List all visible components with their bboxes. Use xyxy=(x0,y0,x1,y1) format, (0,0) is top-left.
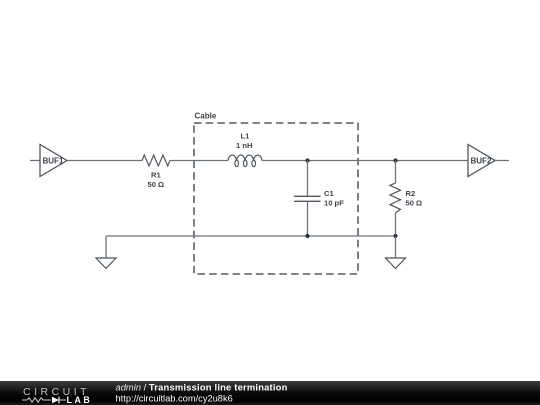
svg-text:10 pF: 10 pF xyxy=(324,199,344,208)
buffer BUF2 xyxy=(468,145,495,177)
node dot R2 bottom xyxy=(393,234,397,238)
svg-text:50 Ω: 50 Ω xyxy=(148,180,165,189)
cable dashed box xyxy=(194,123,358,274)
svg-text:http://circuitlab.com/cy2u8k6: http://circuitlab.com/cy2u8k6 xyxy=(116,394,233,404)
svg-text:C1: C1 xyxy=(324,189,334,198)
resistor R1 xyxy=(142,155,170,189)
buffer BUF1 xyxy=(40,145,67,177)
node dot C1 top xyxy=(305,158,309,162)
ground right xyxy=(386,236,406,269)
svg-text:BUF1: BUF1 xyxy=(43,157,64,166)
wire input to BUF1 xyxy=(30,160,40,162)
svg-text:LAB: LAB xyxy=(67,395,93,405)
resistor R2 xyxy=(390,161,422,237)
svg-text:1 nH: 1 nH xyxy=(236,141,252,150)
logo diode xyxy=(52,397,59,404)
svg-text:50 Ω: 50 Ω xyxy=(406,199,423,208)
bottom wire xyxy=(106,235,396,237)
wire BUF2 output xyxy=(495,160,509,162)
svg-text:L1: L1 xyxy=(241,132,251,141)
wire L1 to BUF2 xyxy=(262,160,468,162)
wire R1 to L1 xyxy=(170,160,228,162)
node dot C1 bottom xyxy=(305,234,309,238)
capacitor C1 xyxy=(294,161,344,237)
node dot R2 top xyxy=(393,158,397,162)
svg-text:BUF2: BUF2 xyxy=(471,157,492,166)
inductor L1 xyxy=(228,132,262,167)
wire BUF1 to R1 xyxy=(67,160,142,162)
svg-text:R1: R1 xyxy=(151,170,161,179)
ground left xyxy=(96,236,116,269)
svg-text:admin / Transmission line term: admin / Transmission line termination xyxy=(116,382,288,393)
logo squiggle wire xyxy=(22,398,51,402)
svg-text:Cable: Cable xyxy=(195,112,217,121)
svg-text:R2: R2 xyxy=(406,189,416,198)
